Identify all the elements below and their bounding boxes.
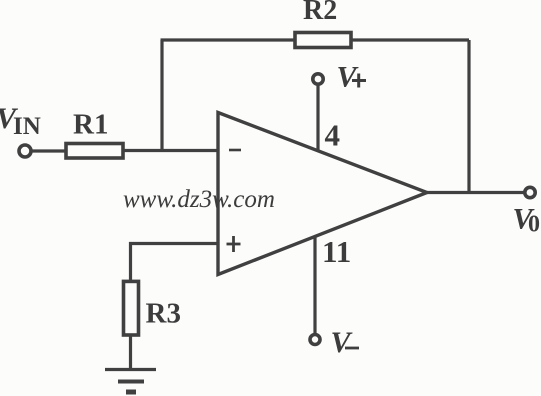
wire R3 to ground	[129, 336, 132, 370]
wire noninverting input	[131, 244, 219, 283]
op-amp U1	[218, 113, 427, 275]
wire feedback right vertical	[467, 40, 470, 193]
svg-text:11: 11	[322, 234, 351, 269]
wire feedback left vertical	[160, 40, 163, 152]
input terminal VIN	[19, 145, 31, 157]
svg-text:4: 4	[325, 118, 341, 153]
svg-text:R2: R2	[303, 0, 337, 26]
svg-text:V: V	[337, 61, 360, 94]
plus input sign	[227, 236, 241, 252]
wire output	[427, 191, 524, 194]
resistor R3	[124, 281, 139, 335]
svg-text:www.dz3w.com: www.dz3w.com	[123, 186, 275, 213]
wire R1 to inverting input	[124, 149, 218, 152]
svg-text:R3: R3	[146, 298, 181, 330]
svg-text:0: 0	[528, 212, 540, 238]
terminal V+	[313, 74, 323, 84]
wire input to R1	[32, 149, 67, 152]
wire V+ to pin 4	[316, 86, 319, 153]
output terminal Vo	[525, 187, 535, 197]
wire pin 11 to V-	[313, 236, 316, 333]
svg-text:R1: R1	[73, 109, 108, 141]
resistor R1	[66, 144, 123, 159]
wire feedback top horizontal	[161, 38, 470, 41]
ground	[105, 370, 156, 393]
minus input sign	[229, 149, 241, 152]
terminal V-	[310, 335, 320, 345]
svg-text:IN: IN	[13, 113, 41, 140]
svg-text:V: V	[331, 326, 354, 359]
resistor R2	[295, 33, 351, 48]
